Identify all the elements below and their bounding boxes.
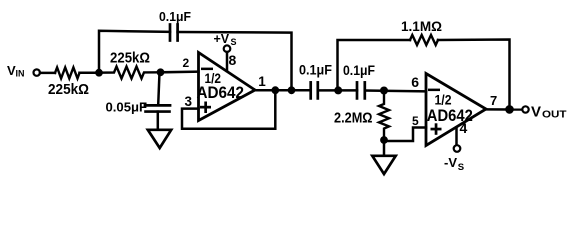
wire C2 to ground G1 xyxy=(157,112,160,130)
svg-text:0.1μF: 0.1μF xyxy=(159,9,191,24)
op-amp U1B (1/2 AD642) xyxy=(426,74,486,146)
+VS terminal xyxy=(224,45,231,52)
pin 2 label xyxy=(183,56,190,70)
node C (between C3 and C4) xyxy=(334,86,342,94)
node output U1A / feedback loop junction xyxy=(271,86,279,94)
input terminal VIN xyxy=(34,69,40,75)
ground G2 xyxy=(372,156,395,174)
wire pin 3 feedback loop to output xyxy=(182,90,275,129)
svg-text:2: 2 xyxy=(183,56,190,70)
-VS terminal xyxy=(454,145,461,152)
U1B 1/2 label xyxy=(435,93,452,108)
capacitor C4 0.1uF xyxy=(356,82,359,98)
pin 4 label xyxy=(460,120,468,136)
svg-text:0.1μF: 0.1μF xyxy=(299,63,332,78)
svg-text:AD642: AD642 xyxy=(197,83,245,102)
node top-rail junction xyxy=(288,86,296,94)
wire R3 to output node xyxy=(438,40,510,110)
pin 1 label xyxy=(258,74,266,89)
svg-text:3: 3 xyxy=(185,94,193,109)
svg-text:IN: IN xyxy=(16,69,25,79)
wire R1 to node A xyxy=(80,72,100,75)
svg-text:7: 7 xyxy=(490,93,497,108)
wire C4 to pin 6 of U1B xyxy=(365,89,426,92)
svg-text:S: S xyxy=(458,162,464,173)
U1A inverting-input bar xyxy=(201,68,213,71)
wire VIN to R1 xyxy=(40,72,55,75)
svg-text:S: S xyxy=(231,37,237,47)
op-amp U1A (1/2 AD642) xyxy=(199,53,256,121)
wire U1A output to C3 xyxy=(255,89,311,92)
U1B plus sign xyxy=(431,123,442,135)
wire +VS to pin 8 xyxy=(226,52,229,71)
pin 7 label xyxy=(490,93,497,108)
svg-text:0.1μF: 0.1μF xyxy=(343,63,375,78)
node B xyxy=(157,68,165,76)
VOUT terminal xyxy=(522,106,528,112)
VIN label xyxy=(7,63,25,79)
svg-text:225kΩ: 225kΩ xyxy=(110,51,150,67)
svg-text:4: 4 xyxy=(460,120,468,136)
node A xyxy=(95,69,103,77)
node E (2.2M bottom) xyxy=(380,136,388,144)
pin 8 label xyxy=(229,52,237,68)
capacitor C3 0.1uF xyxy=(309,82,312,98)
svg-text:+V: +V xyxy=(214,32,230,46)
svg-text:0.05μF: 0.05μF xyxy=(106,100,148,115)
pin 5 label xyxy=(412,114,419,128)
resistor R4 2.2M xyxy=(379,91,389,140)
resistor R3 1.1M xyxy=(410,35,438,45)
resistor R2 225k xyxy=(99,67,161,79)
wire U1B output to VOUT xyxy=(486,108,522,111)
svg-text:1: 1 xyxy=(258,74,266,89)
svg-text:2.2MΩ: 2.2MΩ xyxy=(334,111,373,127)
wire C3 to C4 xyxy=(318,89,357,92)
wire node E to ground G2 xyxy=(383,141,386,156)
node D (2.2M top) xyxy=(380,87,388,95)
wire node B to pin 2 of U1A xyxy=(161,70,199,73)
svg-text:6: 6 xyxy=(411,74,419,90)
svg-text:1.1MΩ: 1.1MΩ xyxy=(401,18,442,34)
wire C1 to stage-1 output node xyxy=(178,32,292,90)
node F (output junction) xyxy=(505,105,514,114)
svg-text:OUT: OUT xyxy=(542,110,567,121)
wire node A up to top rail and to C1 xyxy=(99,31,170,73)
U1A 1/2 label xyxy=(205,71,222,86)
pin 4 stub xyxy=(455,128,458,146)
pin 3 label xyxy=(185,94,193,109)
capacitor C1 0.1uF xyxy=(169,25,172,41)
capacitor C2 0.05uF xyxy=(145,104,170,107)
wire node B down to C2 xyxy=(158,72,159,105)
svg-text:V: V xyxy=(531,104,541,121)
ground G1 xyxy=(148,130,171,148)
svg-text:5: 5 xyxy=(412,114,419,128)
resistor R1 225k xyxy=(55,67,80,78)
U1A AD642 label xyxy=(197,83,245,102)
U1B AD642 label xyxy=(427,106,473,125)
svg-text:225kΩ: 225kΩ xyxy=(48,82,89,98)
U1B inverting-input bar xyxy=(428,89,440,92)
svg-text:-V: -V xyxy=(444,155,457,170)
U1A plus sign xyxy=(200,102,211,114)
wire node E to pin 5 of U1B xyxy=(384,128,426,142)
svg-text:8: 8 xyxy=(229,52,237,68)
wire node C up to 1.1M rail xyxy=(338,40,411,90)
pin 6 label xyxy=(411,74,419,90)
